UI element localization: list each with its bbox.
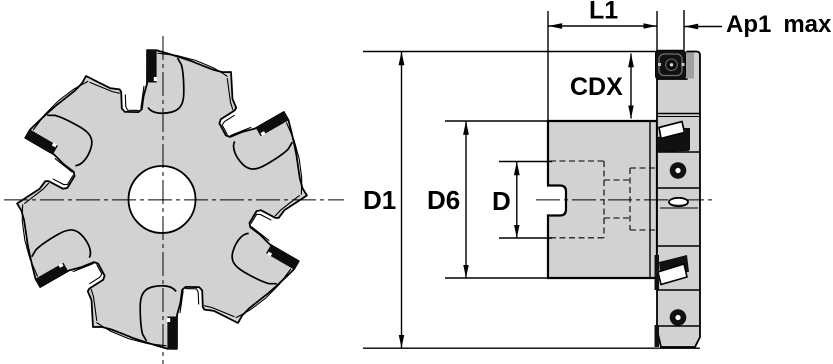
svg-text:CDX: CDX (570, 73, 623, 101)
svg-text:D6: D6 (427, 185, 460, 215)
svg-text:D1: D1 (363, 185, 396, 215)
svg-text:D: D (492, 186, 511, 216)
svg-text:Ap1 max: Ap1 max (726, 11, 832, 38)
svg-text:L1: L1 (589, 0, 618, 25)
